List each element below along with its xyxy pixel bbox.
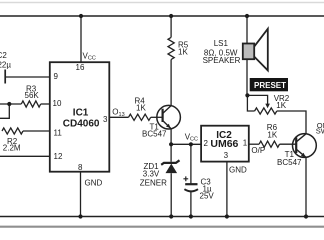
wire pin9 to C2	[5, 76, 50, 78]
svg-text:3: 3	[224, 151, 229, 160]
svg-text:8: 8	[78, 163, 83, 172]
node speaker/rail	[245, 14, 249, 18]
svg-text:O/P: O/P	[251, 146, 265, 155]
svg-text:C2: C2	[0, 51, 7, 60]
wire speaker bottom to node	[246, 59, 248, 95]
svg-text:1K: 1K	[267, 130, 277, 139]
node T2 emitter/ground	[304, 214, 308, 218]
svg-text:LS1: LS1	[214, 39, 229, 48]
node ZD1/ground	[169, 214, 173, 218]
svg-text:3: 3	[103, 115, 108, 124]
resistor R6	[259, 141, 279, 147]
speaker LS1	[254, 29, 268, 71]
wire node to ZD1	[170, 144, 172, 162]
transistor T2 BC547	[293, 134, 317, 158]
wire speaker top	[246, 16, 248, 44]
svg-text:9: 9	[54, 72, 59, 81]
svg-text:O13: O13	[112, 108, 124, 118]
capacitor C2 plate	[4, 70, 6, 84]
node pin8/ground	[78, 214, 82, 218]
svg-text:GND: GND	[229, 165, 247, 174]
wire T1 emitter down	[170, 129, 172, 145]
svg-text:1K: 1K	[276, 101, 286, 110]
svg-text:IC1: IC1	[73, 108, 89, 119]
wire C3 to ground	[190, 191, 192, 217]
resistor R3	[21, 101, 40, 107]
svg-text:BC547: BC547	[277, 158, 302, 167]
wire IC2 pin3 to ground	[226, 162, 228, 217]
svg-text:2.2M: 2.2M	[3, 144, 21, 153]
svg-text:16: 16	[76, 63, 85, 72]
wire VR2 to T2 collector	[277, 111, 306, 134]
wire R4 to T1 base	[151, 116, 162, 118]
wire node to C3	[190, 144, 192, 184]
wire IC1 pin8 to ground rail	[80, 172, 82, 217]
wire T2 emitter to ground	[305, 157, 307, 216]
zener ZD1	[161, 160, 179, 165]
svg-text:CD4060: CD4060	[63, 119, 100, 130]
node C3/ground	[189, 214, 193, 218]
capacitor C3	[185, 183, 197, 185]
svg-text:25V: 25V	[200, 191, 215, 200]
IC2 UM66 box	[201, 126, 249, 162]
svg-text:VCC: VCC	[83, 51, 96, 61]
svg-text:2: 2	[204, 139, 209, 148]
node pin16/rail	[79, 14, 83, 18]
svg-text:12: 12	[54, 152, 63, 161]
wire R5 to T1 collector	[170, 60, 172, 106]
svg-text:3.3V: 3.3V	[143, 170, 160, 179]
resistor R2	[2, 128, 23, 134]
wire node to VR2 left end	[247, 95, 254, 111]
transistor T1 BC547	[157, 105, 181, 129]
wire R3 to pin10	[41, 103, 50, 105]
wire Vcc rail to R5	[170, 16, 172, 37]
svg-text:1K: 1K	[178, 48, 188, 57]
node R5/rail	[169, 14, 173, 18]
resistor R4	[129, 114, 151, 120]
node pin3/ground	[225, 214, 229, 218]
wire R1 stub	[0, 104, 9, 118]
svg-text:11: 11	[54, 129, 63, 138]
node C3 top	[189, 142, 193, 146]
svg-text:GND: GND	[85, 179, 103, 188]
wire pin12	[0, 155, 50, 157]
svg-text:10: 10	[53, 99, 62, 108]
svg-text:PRESET: PRESET	[254, 81, 286, 90]
svg-text:1: 1	[243, 138, 248, 147]
wire Vcc top rail	[0, 15, 324, 17]
IC1 CD4060 box	[50, 62, 110, 172]
VR2 wiper arrowhead	[265, 104, 270, 109]
wire R2 to pin11	[23, 130, 50, 132]
wire ZD1 to ground	[170, 173, 172, 216]
wire R6 to T2 base	[280, 143, 297, 145]
wire pin10 left segment	[0, 103, 21, 105]
svg-text:SPEAKER: SPEAKER	[203, 56, 241, 65]
svg-text:SW.: SW.	[316, 127, 324, 136]
PRESET label	[250, 78, 288, 91]
node VR2 top	[245, 93, 249, 97]
potentiometer VR2	[255, 108, 277, 114]
svg-text:0.22µ: 0.22µ	[0, 60, 11, 69]
node T1 emitter	[169, 142, 173, 146]
svg-text:1K: 1K	[136, 103, 146, 112]
node R3/R1	[7, 102, 11, 106]
wire VR2 wiper	[247, 95, 267, 104]
wire IC2 pin1 to R6	[249, 143, 259, 145]
svg-text:56K: 56K	[25, 91, 40, 100]
wire IC1 pin16 to Vcc rail	[80, 16, 82, 63]
wire GND bottom rail	[0, 216, 324, 218]
svg-text:VCC: VCC	[185, 132, 198, 142]
svg-text:ZENER: ZENER	[140, 178, 167, 187]
svg-text:BC547: BC547	[142, 130, 167, 139]
svg-text:UM66: UM66	[210, 138, 238, 150]
wire mid Vcc node to IC2 pin2	[171, 143, 201, 145]
wire IC1 pin3 to R4	[109, 116, 128, 118]
resistor R5	[168, 37, 174, 59]
